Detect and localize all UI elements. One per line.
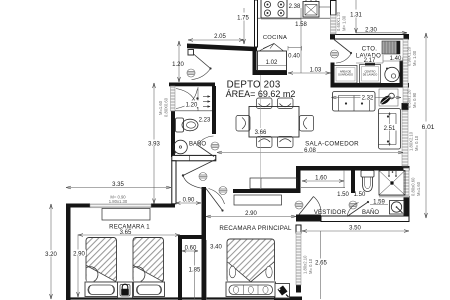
entry door hinge block (188, 50, 194, 56)
dim 1.75 vertical (243, 8, 245, 44)
dim 6.01 vertical (425, 33, 427, 218)
dim 3.93 vertical (153, 83, 155, 204)
sofa two-seat (333, 92, 376, 112)
dim text 6.08 (303, 146, 317, 154)
wall: laundry top outlined (331, 35, 409, 40)
wall: entry top (187, 44, 257, 52)
wall: bath bottom outlined (172, 155, 216, 160)
dim text 2.51 (383, 124, 397, 132)
svg-text:1.80x2.10: 1.80x2.10 (303, 255, 308, 274)
dim text 1.20 closet (185, 101, 199, 109)
bano door leaf (347, 202, 368, 217)
svg-text:2.65: 2.65 (315, 260, 327, 266)
svg-text:VESTIDOR: VESTIDOR (314, 210, 347, 216)
svg-text:1.60: 1.60 (315, 176, 327, 182)
chair top-left (236, 98, 314, 148)
dim 3.20 vertical (50, 204, 52, 299)
dim 2.51 vertical (389, 112, 391, 146)
svg-text:1.40: 1.40 (390, 56, 402, 62)
dim 2.90 r1 vertical (77, 235, 79, 298)
centro de lavado box (360, 65, 381, 84)
svg-text:1.20: 1.20 (186, 102, 198, 108)
kitchen sink (303, 2, 319, 18)
wall: bath corridor top (296, 166, 410, 171)
svg-text:2.32: 2.32 (362, 95, 374, 101)
rp door leaf (206, 189, 223, 211)
svg-text:CTO.: CTO. (362, 47, 377, 53)
shower bottom gray strip (379, 195, 409, 197)
svg-text:2.90: 2.90 (73, 251, 85, 257)
wall: right column black (402, 103, 409, 110)
dim text 1.02 (264, 58, 279, 67)
wall: closet right (212, 86, 216, 134)
symbol circle bano bottom (349, 201, 357, 209)
window: recamara1 top band (90, 204, 151, 208)
dim 2.05 line (188, 39, 244, 41)
wall: laundry top left cap (330, 35, 335, 40)
entry door arc (192, 69, 211, 80)
vestidor closet rod line (301, 187, 345, 189)
svg-text:M=1.60: M=1.60 (416, 181, 421, 196)
wall: nook top (178, 235, 204, 239)
section line vertical (260, 75, 262, 189)
dim 1.85 vertical (194, 252, 196, 300)
wall: recamara principal top (233, 189, 300, 193)
svg-text:0.60: 0.60 (185, 246, 197, 252)
chair bottom-right (278, 137, 294, 148)
wall: bottom exterior thick (274, 297, 302, 300)
toilet top bath (176, 118, 184, 132)
dim 2.32 line (332, 97, 402, 99)
closet double arcs (176, 89, 198, 109)
dim text 3.93 (147, 140, 161, 148)
counter edge line kitchen (258, 17, 330, 19)
dim 2.90 rp line (206, 216, 296, 218)
dim 2.30 line (356, 32, 407, 34)
svg-text:1.80X2.10: 1.80X2.10 (409, 131, 414, 151)
dim 3.35 line (66, 187, 171, 189)
svg-text:RECAMARA PRINCIPAL: RECAMARA PRINCIPAL (219, 225, 292, 232)
dining table (249, 107, 299, 138)
window: rp right band (296, 232, 301, 285)
bed 1 recamara1 (85, 238, 118, 297)
stove (261, 0, 287, 18)
svg-text:0.80X0.60: 0.80X0.60 (164, 97, 169, 117)
wall: bath right black lower (404, 196, 410, 222)
dim 3.50 line (302, 230, 409, 232)
wall: recamara principal left (202, 187, 207, 300)
bath door arc (198, 136, 214, 145)
window: right wall laundry band (403, 39, 408, 103)
svg-text:0.80x0.60: 0.80x0.60 (411, 177, 416, 196)
svg-text:COCINA: COCINA (263, 35, 287, 41)
hall door A arc (183, 176, 203, 189)
svg-text:1.50: 1.50 (337, 192, 349, 198)
symbol circle laundry (331, 50, 339, 58)
svg-text:2.30: 2.30 (365, 28, 377, 34)
chair right (300, 116, 314, 132)
dim text 1.75 (236, 13, 250, 22)
window: right wall sliding band (402, 110, 408, 166)
laundry heater hatched (382, 41, 400, 54)
dim text 2.17 (363, 57, 377, 65)
svg-text:DE LAVADO: DE LAVADO (363, 73, 377, 77)
svg-text:M= 0.90: M= 0.90 (412, 92, 417, 108)
wall: kitchen right top outlined (331, 1, 337, 16)
dim text 1.40 (389, 55, 403, 63)
dim 2.65 vertical (320, 231, 322, 299)
vestidor door arc (314, 197, 322, 215)
wall: hall-bath left upper (171, 111, 175, 157)
nightstand with lock recamara1 (118, 282, 133, 298)
svg-text:0.40: 0.40 (288, 54, 300, 60)
dim text 1.31 (349, 10, 363, 19)
symbol circle entry (187, 69, 195, 77)
plant box (379, 89, 398, 106)
vestidor top closet (250, 178, 297, 189)
bed principal (226, 239, 276, 297)
washer circle (385, 67, 399, 81)
sink cabinet cocina (258, 51, 287, 71)
dim 1.20 entry vertical (178, 41, 180, 82)
closet bottom line (175, 110, 212, 112)
svg-text:1.50: 1.50 (354, 192, 366, 198)
svg-text:2.51: 2.51 (384, 126, 396, 132)
svg-text:BAÑO: BAÑO (189, 141, 206, 148)
rp dresser under wall (234, 195, 282, 205)
svg-text:1.20: 1.20 (172, 62, 184, 68)
dim text 2.32 (361, 94, 375, 102)
hall door A leaf (183, 160, 216, 176)
svg-text:0.50x1.20: 0.50x1.20 (407, 89, 412, 108)
svg-text:2.17: 2.17 (364, 58, 376, 64)
svg-text:0.90X1.20: 0.90X1.20 (407, 46, 412, 66)
wall: recamara1 top left piece (66, 204, 90, 208)
chair bottom-left (257, 137, 273, 148)
window: closet left band (171, 86, 176, 111)
svg-text:2.05: 2.05 (214, 34, 226, 40)
svg-text:1.75: 1.75 (237, 16, 249, 22)
svg-text:M= 1.00: M= 1.00 (342, 15, 347, 31)
svg-text:1.31: 1.31 (350, 13, 362, 19)
dim 3.40 vertical (206, 240, 208, 299)
svg-text:BAÑO: BAÑO (362, 209, 379, 216)
dim 0.40 bracket (288, 47, 302, 49)
entry door leaf (194, 54, 211, 69)
laundry door leaf (334, 40, 351, 54)
svg-text:3.66: 3.66 (255, 130, 267, 136)
dim text 3.40 (209, 243, 223, 251)
symbol circle vestidor (295, 201, 303, 209)
plant icon (379, 93, 394, 106)
dim text 3.20 (44, 250, 58, 258)
symbol circle bano top (211, 142, 219, 150)
svg-text:GUARDADO: GUARDADO (338, 73, 353, 77)
svg-text:3.40: 3.40 (210, 244, 222, 250)
bath door leaf (198, 145, 215, 157)
svg-text:M=1.60: M=1.60 (158, 100, 163, 115)
dim text 1.85 (188, 266, 202, 274)
svg-text:2.23: 2.23 (199, 118, 211, 124)
r1 closet box (102, 209, 150, 221)
wall: closet top (169, 83, 215, 87)
dim 3.65 line (78, 234, 180, 236)
svg-text:3.20: 3.20 (45, 252, 57, 258)
area de guardado box (334, 66, 357, 84)
wall: vestidor left vertical (296, 166, 301, 193)
dim text 2.65 (314, 259, 329, 267)
wall: laundry left (331, 63, 335, 88)
svg-text:1.85: 1.85 (189, 267, 201, 273)
wall: bottom exterior thin (66, 297, 274, 299)
svg-text:0.65X1.20: 0.65X1.20 (336, 11, 341, 31)
wall: rp window bottom cap (296, 285, 301, 293)
dim 1.02 line (258, 65, 286, 67)
svg-text:3.93: 3.93 (148, 141, 160, 147)
wall: bath stub (351, 171, 355, 194)
dim 0.60 line (182, 250, 198, 252)
svg-text:1.80x1.30: 1.80x1.30 (109, 199, 128, 204)
wall: hall-bath left lower outlined (172, 161, 176, 204)
bed 2 recamara1 (133, 238, 165, 297)
dim 1.40 line (383, 60, 403, 62)
shower (379, 171, 405, 196)
rp door arc (209, 189, 225, 205)
svg-text:M= 0.10: M= 0.10 (308, 258, 313, 274)
svg-text:1.02: 1.02 (266, 60, 278, 66)
wall: recamara1 top right piece (151, 204, 175, 208)
wall: kitchen counter left vertical (253, 51, 257, 75)
dim extension vertical x301 (300, 8, 302, 73)
dim 1.59 line (370, 204, 388, 206)
window: kitchen right band (331, 15, 337, 34)
svg-text:1.03: 1.03 (310, 68, 322, 74)
wall: vestidor bottom outlined (321, 216, 409, 222)
dim 0.90 hall line (176, 202, 202, 204)
bath bar tick (189, 155, 191, 160)
bano door arc (347, 203, 359, 217)
dim 1.60 vestidor line (302, 180, 344, 182)
wall: rp window top cap outlined (296, 225, 301, 233)
sofa three-seat (379, 109, 401, 150)
svg-text:3.50: 3.50 (349, 226, 361, 232)
dim 1.58 line (261, 18, 301, 20)
svg-text:0.90: 0.90 (183, 198, 195, 204)
svg-text:1.59: 1.59 (373, 200, 385, 206)
lavabo top bath (174, 140, 188, 154)
wall: kitchen counter bottom (253, 70, 288, 75)
svg-text:M= 0.10: M= 0.10 (414, 135, 419, 151)
svg-text:M= 1.00: M= 1.00 (412, 50, 417, 66)
dim 1.03 line (288, 72, 331, 74)
wall: laundry top right cap (404, 35, 410, 40)
toilet bottom bath (361, 171, 374, 178)
dim 6.08 line (217, 152, 403, 154)
dim 1.31 vertical (355, 0, 357, 33)
sink bottom bath (390, 201, 405, 215)
dim 2.17 line (356, 62, 383, 64)
dim text 3.66 (254, 128, 268, 136)
wall: vestidor bottom black (296, 215, 321, 222)
wall: laundry right inner black (400, 58, 405, 88)
wall: laundry bottom (331, 83, 410, 88)
laundry door arc (336, 54, 351, 63)
window: shower right band (404, 168, 410, 196)
ext tick 1.60 (343, 170, 345, 188)
svg-text:6.01: 6.01 (422, 124, 435, 131)
dim text 2.90 r1 (72, 250, 86, 258)
svg-text:3.35: 3.35 (112, 182, 124, 188)
wall: kitchen left upper thin (255, 0, 258, 47)
svg-text:6.08: 6.08 (304, 148, 316, 154)
svg-text:2.38: 2.38 (289, 4, 301, 10)
svg-text:2.90: 2.90 (245, 211, 257, 217)
tag icon box principal (275, 284, 290, 299)
dim text 6.01 (420, 122, 435, 131)
vestidor door leaf (299, 197, 314, 215)
chair top-right (278, 98, 294, 109)
wall: recamara1 left (66, 204, 71, 300)
closet arrows (203, 95, 211, 108)
symbol circle hall (199, 173, 207, 181)
svg-text:3.65: 3.65 (120, 230, 132, 236)
svg-text:ÁREA= 69.62 m2: ÁREA= 69.62 m2 (226, 89, 296, 99)
symbol circle rp door (219, 187, 227, 195)
svg-text:1.58: 1.58 (295, 22, 307, 28)
chair left (236, 116, 250, 132)
wall: recamara1 right (178, 235, 182, 300)
